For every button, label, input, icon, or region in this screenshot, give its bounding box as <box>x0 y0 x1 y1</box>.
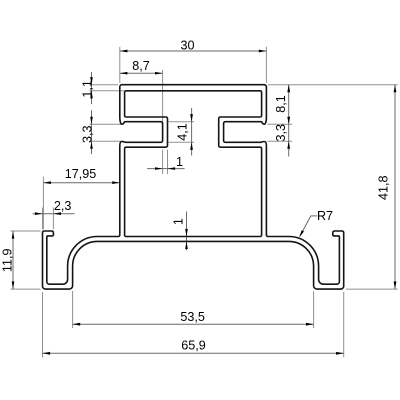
arrow 1,1 bottom <box>90 91 93 99</box>
arrow R7 leader <box>299 230 304 237</box>
extension line: ext 1,1 top <box>89 84 118 86</box>
arrow 53,5 right <box>306 323 314 326</box>
dimension line: dim line 53,5 <box>73 323 314 325</box>
arrow 53,5 left <box>73 323 81 326</box>
extension line: ext 1slot right <box>167 150 169 175</box>
arrow 2,3 left <box>35 212 43 215</box>
svg-text:1: 1 <box>171 218 185 225</box>
dimension line: dim line 11,9 <box>12 231 14 289</box>
leader line R7 <box>300 216 318 237</box>
svg-text:4,1: 4,1 <box>176 123 190 141</box>
profile outer contour <box>43 85 344 289</box>
arrow 8,1 top <box>287 85 290 93</box>
dimension line: dim line 8,7 <box>120 72 163 74</box>
extension line: ext 41,8 top <box>268 84 398 86</box>
svg-text:3,3: 3,3 <box>274 124 288 142</box>
arrow 1slot right <box>168 167 176 170</box>
dimension line: dim line 41,8 <box>394 85 396 289</box>
extension line: ext 8,7 right <box>162 70 164 126</box>
dimension line: dim line 1,1 left <box>91 72 93 104</box>
arrow 1,1 top <box>90 77 93 85</box>
arrow 11,9 bottom <box>12 282 15 290</box>
arrow 11,9 top <box>12 231 15 239</box>
svg-text:8,1: 8,1 <box>274 95 288 113</box>
arrow 1slot left <box>155 167 163 170</box>
arrow 2,3 right <box>53 212 61 215</box>
extension line: ext 30 right <box>265 47 267 83</box>
dimension line: dim line 2,3 <box>33 213 75 215</box>
svg-text:30: 30 <box>180 39 194 53</box>
extension line: ext 11,9 top <box>11 230 41 232</box>
svg-text:17,95: 17,95 <box>65 167 97 181</box>
arrow 41,8 top <box>394 85 397 93</box>
arrow 3,3L top <box>90 117 93 125</box>
arrow 4,1 bottom <box>190 142 193 150</box>
dimension line: dim line 65,9 <box>43 352 344 354</box>
extension line: ext 65,9 left <box>42 292 44 357</box>
extension line: ext 3,3L bottom <box>89 140 123 142</box>
dimension line: dim line 30 <box>120 50 267 52</box>
extension line: ext 11,9 bottom <box>11 288 41 290</box>
dimension line: dim line 1 slot <box>147 168 185 170</box>
arrow 65,9 left <box>43 352 51 355</box>
extension line: ext 65,9 right <box>343 292 345 357</box>
svg-text:41,8: 41,8 <box>376 176 390 201</box>
extension line: ext 4,1 bottom <box>169 141 195 143</box>
extension line: ext 30 left <box>119 47 121 83</box>
arrow 4,1 top <box>190 114 193 122</box>
arrow 17,95 left <box>43 181 51 184</box>
svg-text:65,9: 65,9 <box>181 338 206 352</box>
extension line: ext 4,1 top <box>169 121 195 123</box>
extension line: ext 17,95 left <box>42 177 44 230</box>
svg-text:53,5: 53,5 <box>180 310 205 324</box>
extension line: ext 2,3 right <box>52 208 54 230</box>
arrow 3,3R bottom <box>287 141 290 149</box>
profile inner cavity contour <box>125 91 262 237</box>
arrow 8,1 bottom <box>287 117 290 125</box>
arrow 3,3L bottom <box>90 141 93 149</box>
dimension line: dim line 8,1/3,3 right <box>288 85 290 157</box>
extension line: ext 3,3L top <box>89 123 123 125</box>
extension line: ext 1slot left <box>162 150 164 175</box>
dimension line: dim line 4,1 <box>191 108 193 156</box>
svg-text:1,1: 1,1 <box>80 80 94 98</box>
arrow 65,9 right <box>336 352 344 355</box>
extension line: ext 53,5 left <box>72 291 74 328</box>
arrow 1plate bottom <box>185 241 188 249</box>
arrow 41,8 bottom <box>394 282 397 290</box>
extension line: ext 8,1 mid <box>268 123 293 125</box>
svg-text:11,9: 11,9 <box>1 249 15 273</box>
arrow 8,7 left <box>120 72 128 75</box>
extension line: ext 41,8 bottom <box>346 288 398 290</box>
arrow 17,95 right <box>112 181 120 184</box>
extension line: ext 1,1 bottom <box>89 90 124 92</box>
dimension line: dim line 17,95 <box>43 182 119 184</box>
svg-text:8,7: 8,7 <box>132 59 150 73</box>
dimension line: dim line 1 plate <box>186 212 188 251</box>
extension line: ext 2,3 left <box>42 208 44 230</box>
svg-text:3,3: 3,3 <box>80 125 94 143</box>
arrow 30 right <box>259 50 267 53</box>
arrow 8,7 right <box>155 72 163 75</box>
svg-text:R7: R7 <box>317 209 333 223</box>
svg-text:1: 1 <box>176 155 183 169</box>
extension line: ext 53,5 right <box>313 291 315 328</box>
arrow 1plate top <box>185 229 188 237</box>
arrow 30 left <box>120 50 128 53</box>
dimension line: dim line 3,3 left <box>91 110 93 154</box>
extension line: ext 3,3R bottom <box>268 140 293 142</box>
svg-text:2,3: 2,3 <box>54 199 72 213</box>
